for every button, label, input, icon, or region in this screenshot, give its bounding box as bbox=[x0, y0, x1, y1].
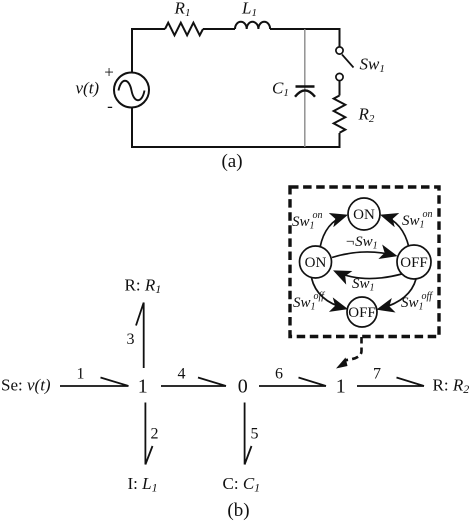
svg-text:C: C1: C: C1 bbox=[223, 474, 261, 495]
svg-text:Sw1on: Sw1on bbox=[402, 209, 433, 231]
svg-text:5: 5 bbox=[251, 426, 259, 443]
svg-text:1: 1 bbox=[138, 375, 148, 397]
svg-text:6: 6 bbox=[275, 366, 283, 383]
svg-text:I: L1: I: L1 bbox=[128, 474, 158, 495]
svg-text:1: 1 bbox=[336, 375, 346, 397]
svg-text:v(t): v(t) bbox=[76, 79, 100, 98]
svg-text:Sw1off: Sw1off bbox=[401, 291, 433, 313]
svg-text:3: 3 bbox=[127, 331, 135, 348]
svg-text:4: 4 bbox=[178, 366, 186, 383]
svg-text:R2: R2 bbox=[358, 105, 375, 126]
svg-text:OFF: OFF bbox=[400, 255, 428, 271]
svg-text:¬Sw1: ¬Sw1 bbox=[345, 234, 378, 252]
svg-text:Se: v(t): Se: v(t) bbox=[1, 376, 51, 395]
svg-text:0: 0 bbox=[238, 375, 248, 397]
svg-text:OFF: OFF bbox=[348, 305, 376, 321]
svg-text:(a): (a) bbox=[221, 151, 242, 172]
svg-text:Sw1: Sw1 bbox=[360, 55, 385, 76]
svg-text:(b): (b) bbox=[227, 500, 249, 521]
svg-text:ON: ON bbox=[353, 207, 375, 223]
svg-text:C1: C1 bbox=[272, 79, 289, 100]
svg-text:ON: ON bbox=[305, 255, 327, 271]
svg-text:1: 1 bbox=[77, 366, 85, 383]
svg-text:Sw1on: Sw1on bbox=[292, 210, 323, 232]
svg-text:L1: L1 bbox=[241, 0, 257, 19]
svg-text:R: R2: R: R2 bbox=[433, 376, 470, 397]
svg-text:2: 2 bbox=[151, 426, 159, 443]
svg-text:7: 7 bbox=[373, 366, 381, 383]
svg-text:Sw1off: Sw1off bbox=[293, 291, 325, 313]
svg-text:R1: R1 bbox=[174, 0, 191, 19]
svg-text:R: R1: R: R1 bbox=[125, 276, 162, 297]
svg-text:-: - bbox=[107, 97, 113, 116]
svg-text:+: + bbox=[104, 63, 114, 82]
